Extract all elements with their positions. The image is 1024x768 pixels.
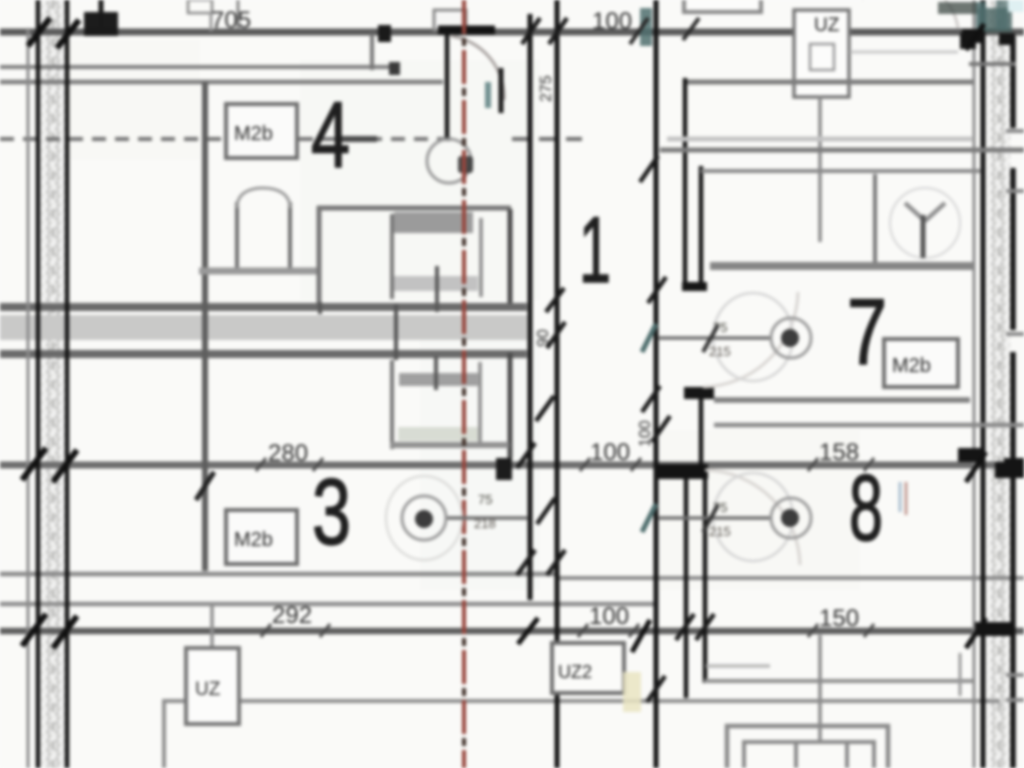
svg-text:M2b: M2b — [892, 355, 931, 377]
svg-text:UZ2: UZ2 — [558, 662, 592, 682]
svg-text:292: 292 — [272, 602, 312, 629]
svg-text:75: 75 — [478, 492, 492, 507]
svg-text:215: 215 — [709, 344, 731, 359]
svg-text:280: 280 — [268, 440, 308, 467]
svg-text:1: 1 — [579, 197, 611, 302]
svg-text:90: 90 — [535, 329, 552, 347]
svg-text:3: 3 — [312, 459, 351, 564]
svg-text:UZ: UZ — [195, 679, 221, 700]
svg-text:M2b: M2b — [234, 123, 273, 145]
svg-text:275: 275 — [538, 75, 555, 102]
svg-text:150: 150 — [819, 605, 859, 632]
svg-text:100: 100 — [589, 603, 629, 630]
svg-text:UZ: UZ — [814, 15, 840, 36]
svg-text:7: 7 — [847, 279, 887, 384]
svg-text:218: 218 — [474, 516, 496, 531]
svg-text:M2b: M2b — [234, 529, 273, 551]
svg-text:100: 100 — [592, 8, 632, 35]
svg-text:8: 8 — [849, 455, 883, 560]
svg-text:4: 4 — [311, 82, 350, 187]
svg-text:100: 100 — [637, 420, 654, 447]
svg-text:705: 705 — [211, 7, 251, 34]
svg-text:100: 100 — [590, 439, 630, 466]
svg-text:215: 215 — [709, 524, 731, 539]
